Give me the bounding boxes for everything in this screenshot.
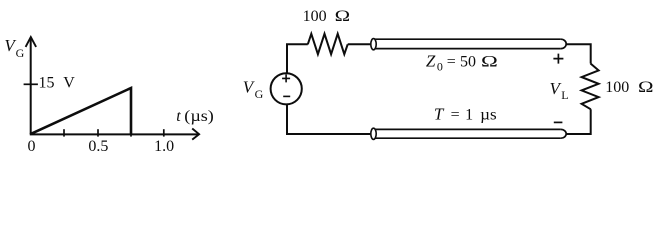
svg-text:1: 1	[465, 107, 473, 124]
svg-text:Ω: Ω	[335, 8, 351, 25]
graph y-axis arrowhead	[26, 37, 36, 47]
svg-text:15: 15	[39, 75, 55, 92]
graph x ticks	[64, 129, 164, 136]
load plus sign	[553, 54, 563, 64]
resistor RL zigzag	[582, 64, 599, 110]
wire line output to load top	[566, 44, 591, 63]
svg-text:Ω: Ω	[638, 79, 654, 96]
svg-text:1.0: 1.0	[154, 138, 174, 155]
wire source bottom to bottom line	[287, 104, 370, 134]
graph x-axis	[30, 133, 199, 135]
svg-text:100: 100	[303, 8, 327, 25]
graph y-axis	[30, 38, 32, 134]
svg-text:t: t	[176, 108, 181, 125]
svg-text:0: 0	[437, 60, 443, 74]
svg-text:G: G	[255, 87, 264, 101]
wire source top to resistor	[287, 44, 308, 73]
svg-text:(µs): (µs)	[184, 108, 214, 125]
svg-text:µs: µs	[480, 107, 497, 124]
svg-text:0.5: 0.5	[88, 138, 108, 155]
transmission line top body	[373, 39, 560, 48]
svg-text:G: G	[16, 46, 25, 60]
voltage source VG circle	[271, 73, 302, 104]
voltage source minus sign	[283, 95, 290, 97]
transmission line top left ellipse	[371, 39, 376, 50]
svg-text:Z: Z	[426, 52, 436, 71]
svg-text:Ω: Ω	[481, 54, 498, 71]
svg-text:0: 0	[28, 138, 36, 155]
wire resistor to line input	[348, 43, 371, 45]
ramp waveform	[30, 88, 131, 134]
voltage source plus sign	[282, 74, 290, 82]
graph y tick 15 V	[24, 83, 38, 85]
svg-text:=: =	[451, 107, 460, 124]
resistor R1 zigzag	[308, 34, 348, 54]
wire load bottom	[566, 109, 591, 134]
svg-text:V: V	[63, 75, 75, 92]
transmission line bottom right cap	[561, 129, 566, 138]
svg-text:100: 100	[605, 79, 629, 96]
transmission line bottom body	[373, 129, 560, 138]
transmission line bottom left ellipse	[371, 128, 376, 139]
svg-text:50: 50	[460, 54, 476, 71]
graph x-axis arrowhead	[192, 129, 199, 140]
svg-text:T: T	[434, 105, 445, 124]
load minus sign	[554, 121, 563, 123]
svg-text:L: L	[561, 88, 568, 102]
transmission line top right cap	[561, 39, 566, 48]
svg-text:=: =	[447, 54, 456, 71]
